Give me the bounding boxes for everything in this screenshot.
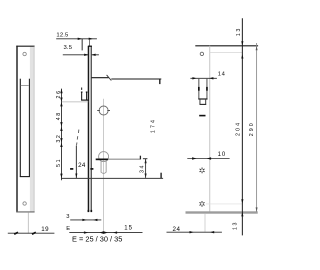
faceplate front view: gray shading band <box>30 47 34 212</box>
dimension 10 <box>187 152 229 160</box>
faceplate slot <box>20 79 30 177</box>
svg-text:24: 24 <box>78 162 86 169</box>
fixing point star lower <box>199 201 204 207</box>
svg-text:13: 13 <box>236 27 242 36</box>
dimension 24 middle <box>70 130 93 178</box>
profile cylinder hole <box>99 152 109 174</box>
svg-text:204: 204 <box>236 121 242 136</box>
left dimension stack line <box>60 89 62 181</box>
dimension 34 <box>140 159 148 178</box>
faceplate front view: outer rectangle <box>16 46 34 213</box>
right view back edge <box>209 46 211 213</box>
svg-text:3: 3 <box>66 214 69 220</box>
follower hole <box>97 106 110 115</box>
right view top hole <box>200 52 203 55</box>
svg-text:174: 174 <box>150 118 156 133</box>
case top edge with break <box>92 75 162 84</box>
dimension 12.5 <box>56 33 97 51</box>
svg-text:290: 290 <box>249 121 255 136</box>
dimension E baseline <box>66 226 142 234</box>
svg-text:10: 10 <box>218 152 227 158</box>
dimension line 13/204 <box>241 18 243 235</box>
svg-text:19: 19 <box>41 226 49 233</box>
svg-text:E: E <box>66 226 70 232</box>
dimension 19 extension line <box>27 212 29 233</box>
bottom gray bar <box>186 211 258 213</box>
hook bolt slot back view <box>198 79 207 116</box>
faceplate side view plate <box>88 46 92 212</box>
faint extension star to dimension <box>206 203 242 205</box>
extension line hole to dimension <box>210 52 242 54</box>
svg-text:3.5: 3.5 <box>64 45 73 51</box>
dimension 3 bottom <box>66 214 101 221</box>
faceplate bottom screw hole <box>23 202 26 205</box>
svg-text:13: 13 <box>233 221 239 230</box>
right view top edge <box>195 45 258 47</box>
svg-text:26: 26 <box>56 89 62 98</box>
svg-text:34: 34 <box>140 164 146 173</box>
svg-text:12.5: 12.5 <box>56 33 69 39</box>
dimension 19 <box>8 226 55 234</box>
cylinder center line thin continuation <box>108 156 140 160</box>
svg-text:51: 51 <box>56 158 62 167</box>
faint extension lines below bar <box>204 214 206 232</box>
faceplate side view stub extension <box>88 39 90 46</box>
bolt notch side view <box>81 88 88 101</box>
dimension 14 <box>190 72 225 80</box>
svg-text:15: 15 <box>124 226 133 232</box>
extension line at y=102 <box>62 101 88 103</box>
cylinder center thick dash <box>96 158 108 160</box>
dimension 24 right <box>167 226 222 233</box>
svg-text:32: 32 <box>56 134 62 143</box>
svg-text:24: 24 <box>173 226 181 233</box>
baseline at y=178.4 <box>61 173 163 179</box>
faceplate top screw hole <box>23 52 26 55</box>
fixing point star upper <box>200 167 205 173</box>
svg-text:14: 14 <box>218 72 226 78</box>
svg-text:E = 25 / 30 / 35: E = 25 / 30 / 35 <box>72 234 122 243</box>
dimension line 290 <box>256 43 258 212</box>
svg-text:48: 48 <box>56 111 62 120</box>
centerline <box>103 99 105 233</box>
dimension 3.5 <box>63 45 99 56</box>
